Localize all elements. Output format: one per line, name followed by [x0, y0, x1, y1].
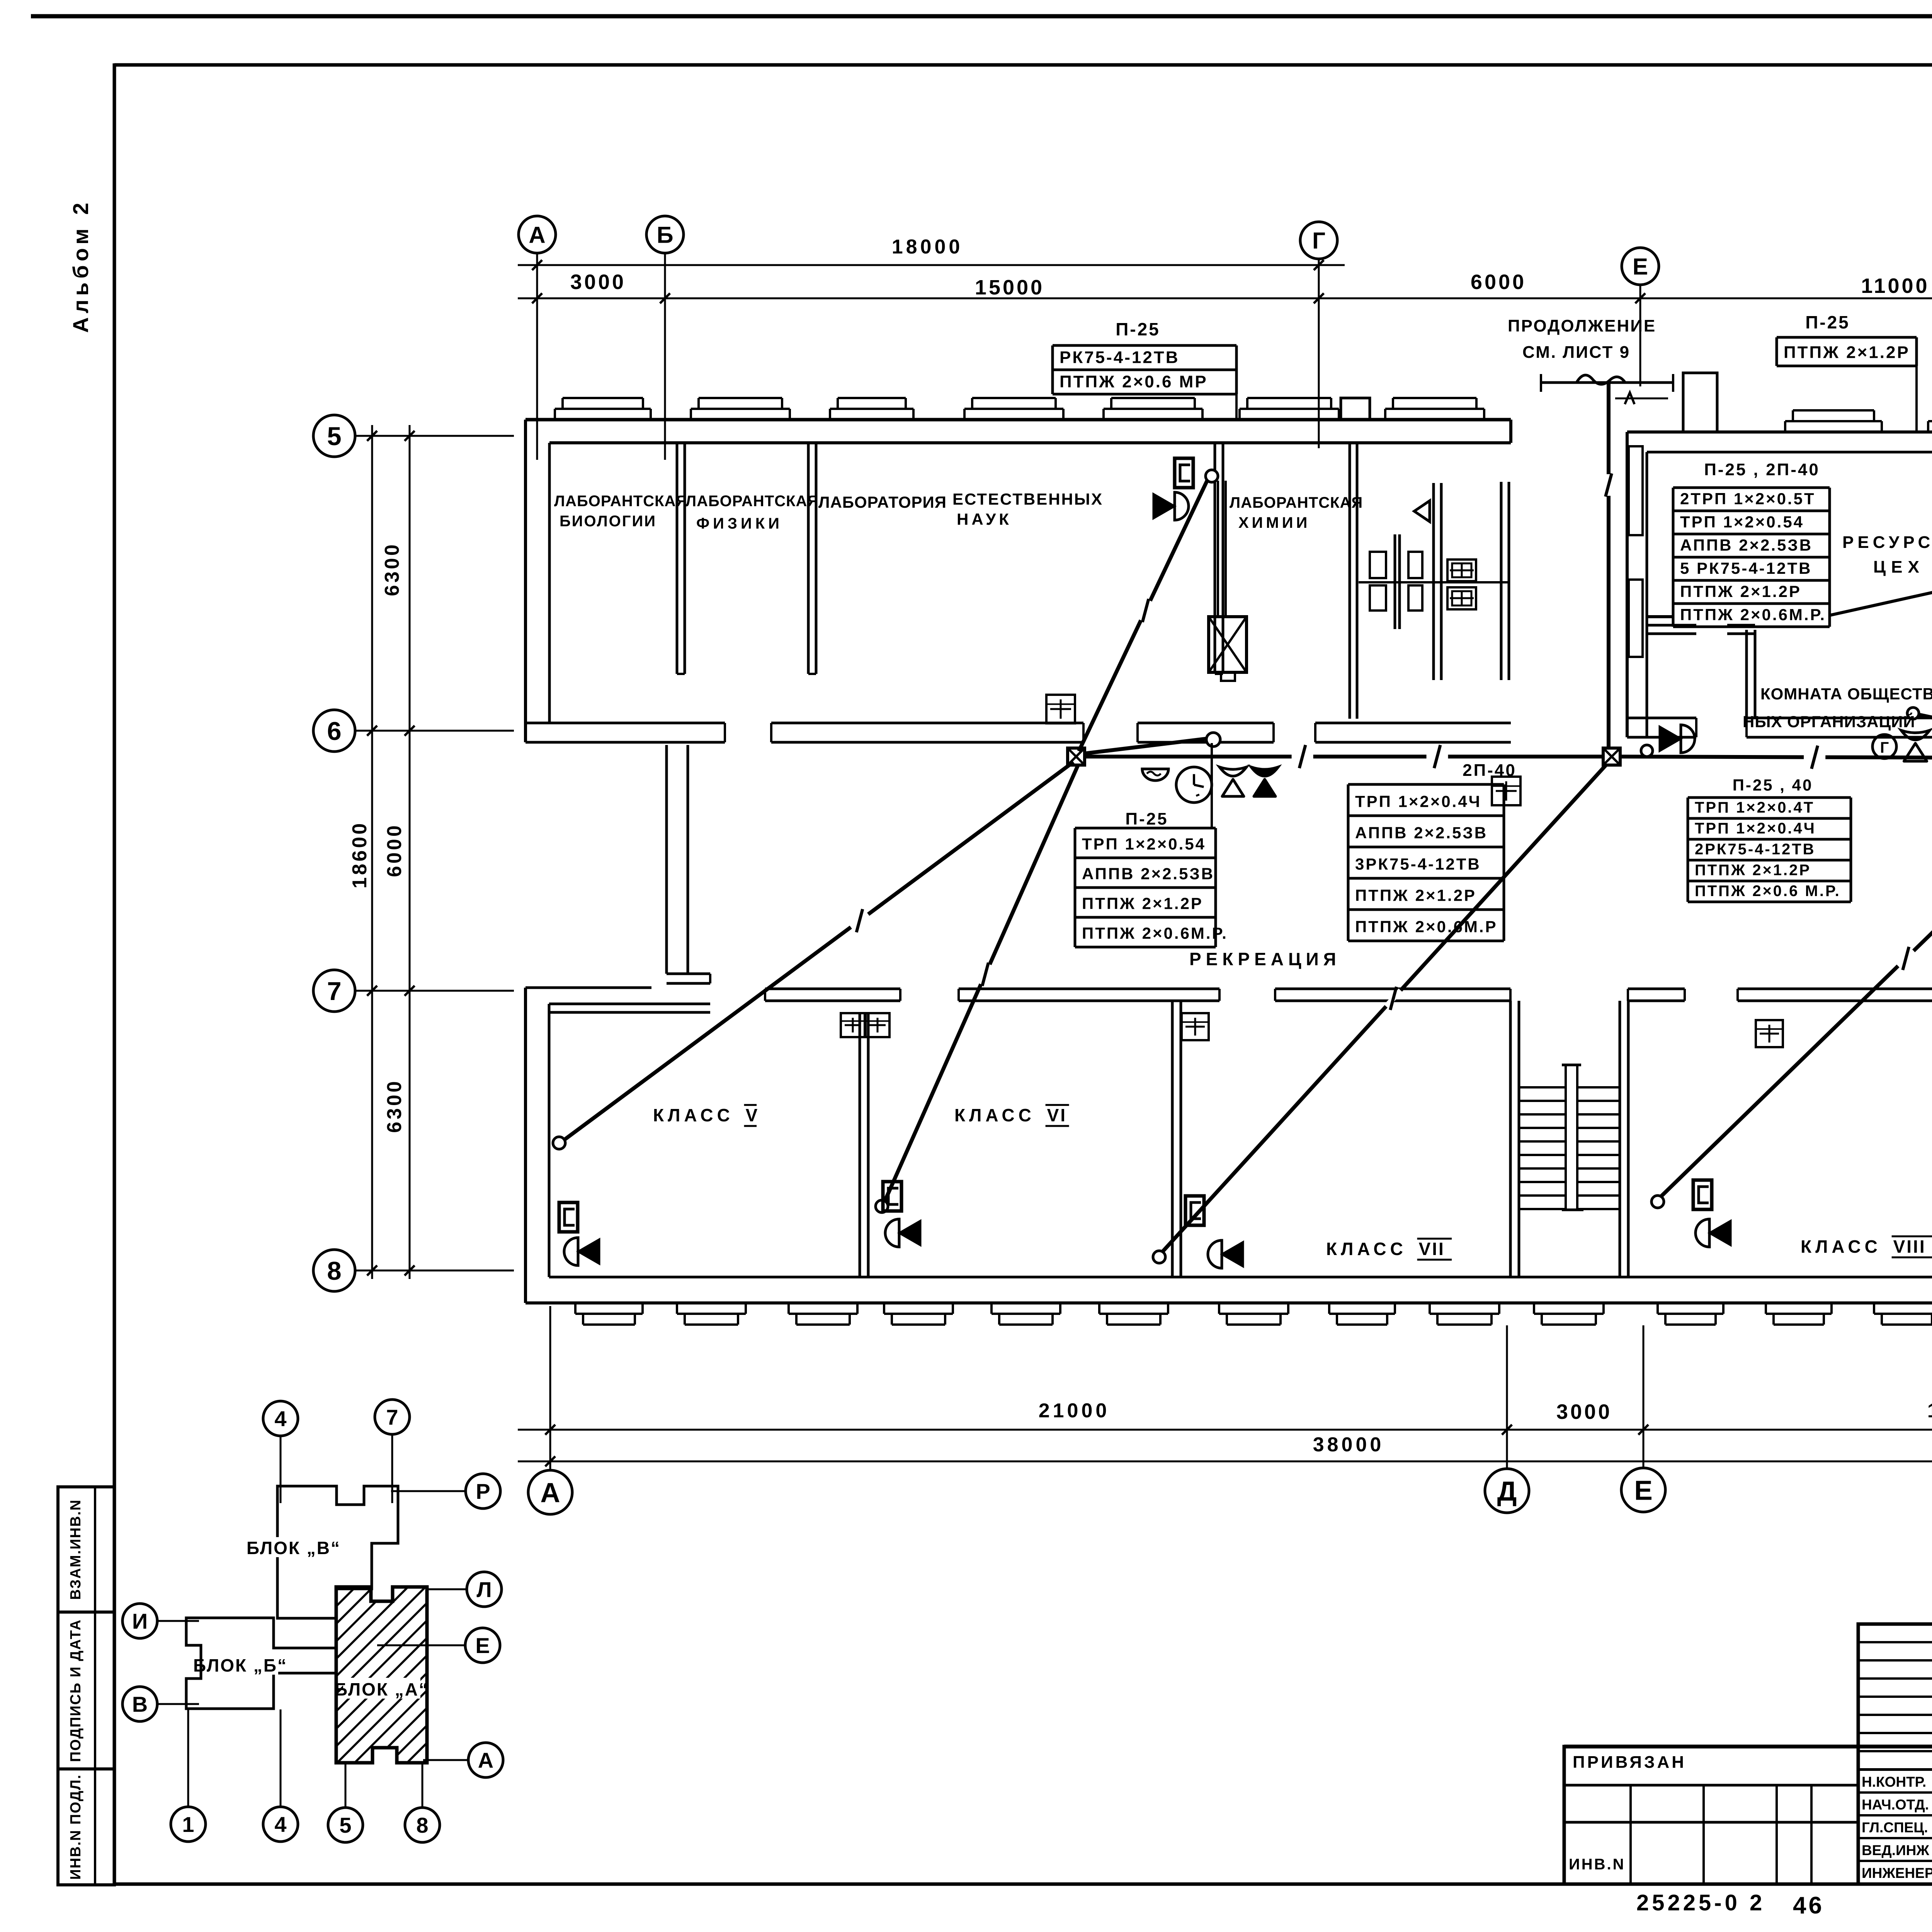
axis circle G top [1300, 222, 1337, 259]
svg-text:7: 7 [327, 977, 341, 1006]
svg-text:НАЧ.ОТД.: НАЧ.ОТД. [1862, 1797, 1929, 1813]
socket class VI [883, 1182, 901, 1211]
top dimension chain row2 [518, 298, 1932, 299]
top block outer top wall left part [526, 418, 1511, 422]
G circle komnata [1872, 735, 1896, 759]
partition V-VI [859, 1012, 861, 1277]
hourglass komnata [1901, 730, 1930, 761]
key plan block V outline [277, 1486, 398, 1618]
axis circle A bottom [528, 1470, 572, 1514]
svg-text:КЛАСС: КЛАСС [1326, 1239, 1407, 1259]
svg-text:4: 4 [274, 1406, 286, 1431]
svg-text:ГЛ.СПЕЦ.: ГЛ.СПЕЦ. [1862, 1820, 1928, 1835]
svg-text:11000: 11000 [1861, 274, 1929, 298]
svg-text:ПТПЖ 2×1.2Р: ПТПЖ 2×1.2Р [1784, 343, 1910, 362]
title block outer [1858, 1624, 1932, 1884]
clock corridor [1176, 767, 1212, 803]
svg-text:5 РК75-4-12ТВ: 5 РК75-4-12ТВ [1680, 559, 1812, 577]
svg-text:ИНЖЕНЕР: ИНЖЕНЕР [1862, 1865, 1932, 1881]
svg-text:ПТПЖ 2×1.2Р: ПТПЖ 2×1.2Р [1680, 582, 1801, 600]
top block corridor wall right segments [1627, 717, 1696, 719]
key plan axis circle I [122, 1604, 157, 1638]
svg-text:КЛАСС: КЛАСС [653, 1105, 734, 1125]
node passage [1907, 707, 1919, 719]
svg-text:VII: VII [1419, 1239, 1445, 1259]
plusbox stair [1492, 777, 1520, 805]
svg-text:ЦЕХ: ЦЕХ [1873, 558, 1925, 577]
svg-text:14000: 14000 [1927, 1400, 1932, 1422]
frame left line [113, 63, 116, 1885]
class V top wall [549, 1003, 710, 1005]
svg-text:Б: Б [656, 222, 673, 248]
svg-text:2РК75-4-12ТВ: 2РК75-4-12ТВ [1695, 841, 1816, 858]
svg-text:ИНВ.N: ИНВ.N [1569, 1856, 1626, 1873]
socket class VIII [1693, 1180, 1712, 1209]
svg-text:Г: Г [1312, 228, 1325, 254]
svg-text:П-25 , 40: П-25 , 40 [1733, 776, 1813, 794]
svg-text:Е: Е [1634, 1476, 1652, 1506]
riser corridor to table5 [1211, 743, 1213, 828]
partition VI-VII [1171, 1001, 1174, 1277]
svg-text:Г: Г [1880, 739, 1889, 756]
axis circle D bottom [1485, 1469, 1529, 1513]
signoff rows [1858, 1769, 1932, 1771]
svg-text:ТРП 1×2×0.54: ТРП 1×2×0.54 [1680, 513, 1804, 531]
windows top wall left [555, 398, 651, 420]
table T6 2P-40 corridor center [1348, 761, 1517, 941]
riser prodolzhenie [1605, 383, 1612, 748]
svg-text:3РК75-4-12ТВ: 3РК75-4-12ТВ [1355, 855, 1481, 873]
left step wall [526, 986, 651, 989]
svg-text:15000: 15000 [975, 276, 1044, 299]
svg-text:А: А [540, 1478, 560, 1509]
key plan axis circle E [465, 1628, 500, 1663]
svg-text:Е: Е [1633, 254, 1648, 280]
svg-text:ВЗАМ.ИНВ.N: ВЗАМ.ИНВ.N [68, 1499, 84, 1600]
svg-text:БЛОК „А“: БЛОК „А“ [335, 1679, 429, 1699]
svg-text:6300: 6300 [381, 542, 403, 596]
vestibule wall left [665, 745, 668, 974]
table T1 P-25 top labs [1053, 319, 1236, 394]
wire box1 to class V [564, 762, 1073, 1140]
wire box3 to passage node [1920, 715, 1932, 754]
speaker class VI [885, 1219, 920, 1247]
svg-text:БИОЛОГИИ: БИОЛОГИИ [560, 513, 656, 530]
key plan block B outline [186, 1618, 336, 1709]
svg-text:25225-0 2: 25225-0 2 [1636, 1890, 1765, 1915]
speaker class V [564, 1238, 599, 1265]
privyazan box [1564, 1747, 1858, 1884]
stairs treads [1519, 1087, 1620, 1209]
windows top wall right [1785, 410, 1882, 432]
svg-text:БЛОК „В“: БЛОК „В“ [247, 1538, 341, 1558]
left stamp box column [58, 1487, 114, 1885]
table T5 P-25 corridor left [1075, 810, 1228, 947]
labs bottom wall segments [526, 722, 725, 724]
svg-text:3000: 3000 [570, 270, 626, 294]
top block outer top wall right part [1627, 430, 1932, 434]
left axis circle 5 [313, 415, 355, 457]
svg-text:КЛАСС: КЛАСС [1801, 1236, 1881, 1257]
hourglass corridor open [1219, 767, 1247, 796]
resurs left wall windows [1629, 446, 1643, 535]
svg-text:5: 5 [339, 1813, 351, 1837]
node class VIII [1651, 1196, 1664, 1208]
key plan axis circle D [468, 1743, 503, 1777]
table T7 P-25 40 corridor right [1688, 776, 1851, 902]
socket class V [559, 1202, 578, 1232]
svg-text:АППВ 2×2.5ЗВ: АППВ 2×2.5ЗВ [1082, 864, 1214, 883]
svg-text:П-25: П-25 [1125, 810, 1168, 828]
svg-text:ХИМИИ: ХИМИИ [1238, 514, 1310, 531]
svg-text:П-25: П-25 [1116, 319, 1160, 339]
labs left outer wall [524, 420, 527, 742]
svg-text:Д: Д [1497, 1476, 1517, 1507]
key plan axis circle 4 top [263, 1401, 298, 1436]
frame top second line [114, 63, 1932, 67]
junction box 1 [1068, 748, 1085, 765]
labs partition phys-lab [807, 443, 810, 674]
sheet top border [31, 14, 1932, 19]
svg-text:6: 6 [327, 717, 341, 746]
left axis circle 8 [313, 1250, 355, 1291]
label klass VII [1326, 1239, 1452, 1260]
svg-text:ЛАБОРАНТСКАЯ: ЛАБОРАНТСКАЯ [685, 493, 819, 510]
svg-text:ФИЗИКИ: ФИЗИКИ [696, 515, 783, 532]
signoff grid [1858, 1623, 1932, 1625]
windows bottom wall [575, 1303, 643, 1325]
svg-text:А: А [478, 1748, 493, 1772]
axis circle E top [1622, 248, 1659, 285]
svg-text:18000: 18000 [892, 236, 963, 258]
labs partition chem-wc [1349, 443, 1351, 719]
svg-text:8: 8 [416, 1813, 428, 1837]
resurs tseh left wall [1626, 432, 1629, 737]
axis circle B top [646, 216, 684, 253]
labs partition nauk-chem [1214, 443, 1216, 674]
svg-text:38000: 38000 [1313, 1434, 1384, 1456]
svg-text:5: 5 [327, 422, 341, 451]
uchit room cable along wall [1830, 579, 1932, 615]
axis circle E bottom [1621, 1468, 1665, 1512]
break squiggle [1577, 375, 1625, 384]
key plan axis circle 7 top [375, 1400, 410, 1434]
classroom left outer wall [524, 988, 527, 1303]
svg-text:ТРП 1×2×0.4Ч: ТРП 1×2×0.4Ч [1355, 792, 1481, 810]
svg-text:21000: 21000 [1039, 1400, 1110, 1422]
svg-text:2ТРП 1×2×0.5Т: 2ТРП 1×2×0.5Т [1680, 490, 1816, 508]
svg-text:КОМНАТА ОБЩЕСТВЕН-: КОМНАТА ОБЩЕСТВЕН- [1760, 685, 1932, 703]
svg-text:ПТПЖ 2×1.2Р: ПТПЖ 2×1.2Р [1695, 862, 1811, 879]
svg-text:КЛАСС: КЛАСС [954, 1105, 1035, 1125]
svg-text:2П-40: 2П-40 [1463, 761, 1517, 780]
key plan axis circle 4 bottom [263, 1807, 298, 1842]
key plan axis circle R [466, 1474, 500, 1509]
key plan label blok B [193, 1655, 287, 1675]
wire box1 to corridor node [1085, 739, 1206, 753]
svg-text:6000: 6000 [1471, 270, 1526, 294]
left axis circle 7 [313, 970, 355, 1012]
key plan axis circle 1 bottom [171, 1807, 206, 1842]
frame bottom line [114, 1883, 1932, 1886]
svg-text:ПОДПИСЬ И ДАТА: ПОДПИСЬ И ДАТА [68, 1619, 84, 1762]
key plan axis circle 5 bottom [328, 1808, 363, 1842]
svg-text:РЕКРЕАЦИЯ: РЕКРЕАЦИЯ [1189, 949, 1341, 969]
wire box3 to class VIII [1660, 763, 1932, 1197]
svg-text:В: В [132, 1692, 148, 1716]
svg-text:Альбом 2: Альбом 2 [68, 199, 93, 333]
top dimension chain 18000 [518, 264, 1345, 266]
svg-text:АППВ 2×2.5ЗВ: АППВ 2×2.5ЗВ [1680, 536, 1813, 554]
svg-text:6300: 6300 [383, 1079, 406, 1133]
svg-text:ПТПЖ 2×0.6М.Р: ПТПЖ 2×0.6М.Р [1355, 917, 1498, 935]
classroom bottom outer wall [526, 1301, 1932, 1304]
svg-text:БЛОК „Б“: БЛОК „Б“ [193, 1655, 287, 1675]
svg-text:ПТПЖ 2×0.6 МР: ПТПЖ 2×0.6 МР [1060, 372, 1208, 391]
svg-text:ЛАБОРАНТСКАЯ: ЛАБОРАНТСКАЯ [554, 493, 687, 510]
komnata partition horizontal [1647, 624, 1696, 627]
svg-text:ЕСТЕСТВЕННЫХ: ЕСТЕСТВЕННЫХ [952, 490, 1103, 508]
svg-text:8: 8 [327, 1257, 341, 1286]
svg-text:ПРИВЯЗАН: ПРИВЯЗАН [1573, 1753, 1686, 1772]
svg-text:АППВ 2×2.5ЗВ: АППВ 2×2.5ЗВ [1355, 823, 1488, 842]
svg-text:VIII: VIII [1893, 1236, 1926, 1257]
partition stair-VIII [1619, 1001, 1621, 1277]
svg-text:И: И [132, 1609, 148, 1633]
svg-text:ЛАБОРАТОРИЯ: ЛАБОРАТОРИЯ [818, 493, 947, 511]
hourglass corridor filled [1251, 767, 1278, 796]
cap symbol corridor [1142, 769, 1168, 781]
speaker komnata [1660, 725, 1695, 753]
svg-text:А: А [529, 222, 545, 248]
labs partition bio-phys [676, 443, 679, 674]
svg-text:ВЕД.ИНЖ: ВЕД.ИНЖ [1862, 1842, 1929, 1858]
corridor trunk wire 1-2 [1085, 745, 1603, 768]
speaker class VIII [1696, 1219, 1730, 1247]
svg-text:РЕСУРСНЫЙ: РЕСУРСНЫЙ [1842, 532, 1932, 552]
svg-text:Л: Л [476, 1577, 492, 1602]
svg-text:ТРП 1×2×0.4Т: ТРП 1×2×0.4Т [1695, 799, 1815, 816]
svg-text:ПТПЖ 2×1.2Р: ПТПЖ 2×1.2Р [1082, 894, 1203, 912]
table T2 P-25 top center [1777, 312, 1917, 366]
key plan label blok A [335, 1678, 429, 1699]
key plan axis circle 8 bottom [405, 1808, 440, 1842]
plusbox class VII [1182, 1013, 1209, 1040]
partition VII-stair [1509, 1001, 1512, 1277]
corridor lower wall segments [765, 988, 900, 990]
stairs stringer [1565, 1065, 1567, 1209]
axis circle A top [519, 216, 556, 253]
label klass V [653, 1105, 759, 1126]
socket class VII [1185, 1196, 1204, 1225]
svg-text:ИНВ.N ПОДЛ.: ИНВ.N ПОДЛ. [68, 1774, 84, 1879]
chimney protrusion on top wall [1341, 398, 1370, 420]
svg-text:ТРП 1×2×0.54: ТРП 1×2×0.54 [1082, 835, 1206, 853]
double socket V-VI partition [841, 1013, 865, 1037]
wc fixtures [1370, 552, 1386, 578]
node chem [1206, 470, 1218, 482]
left axis circle 6 [313, 710, 355, 752]
speaker nauk triangle [1414, 501, 1430, 522]
bottom dimension chain 38000 [518, 1461, 1932, 1463]
wire box2 to class VII [1162, 764, 1607, 1252]
node resurs [1641, 745, 1653, 757]
protrusion near prodolzhenie [1683, 373, 1717, 432]
socket chem [1175, 458, 1193, 488]
plusbox class VIII [1756, 1020, 1783, 1047]
svg-text:П-25 , 2П-40: П-25 , 2П-40 [1704, 460, 1820, 479]
stadiya list listov header [1564, 1745, 1932, 1748]
svg-text:ПТПЖ 2×0.6М.Р.: ПТПЖ 2×0.6М.Р. [1680, 605, 1826, 624]
svg-text:4: 4 [274, 1812, 286, 1837]
komnata partition vertical [1745, 630, 1748, 718]
key plan axis circle V [122, 1687, 157, 1721]
wire box1 to class VI [885, 765, 1078, 1201]
node class VII [1153, 1251, 1165, 1263]
svg-text:ТРП 1×2×0.4Ч: ТРП 1×2×0.4Ч [1695, 820, 1816, 837]
svg-text:ПТПЖ 2×1.2Р: ПТПЖ 2×1.2Р [1355, 886, 1476, 904]
node class V [553, 1137, 565, 1149]
svg-text:7: 7 [386, 1405, 398, 1429]
key plan axis circle L [467, 1572, 502, 1607]
vent unit chem [1209, 617, 1247, 681]
svg-text:НЫХ ОРГАНИЗАЦИЙ: НЫХ ОРГАНИЗАЦИЙ [1743, 712, 1915, 731]
svg-text:3000: 3000 [1556, 1400, 1612, 1423]
svg-text:1: 1 [182, 1812, 194, 1837]
svg-text:VI: VI [1047, 1105, 1067, 1125]
svg-text:ПТПЖ 2×0.6 М.Р.: ПТПЖ 2×0.6 М.Р. [1695, 883, 1841, 900]
svg-text:ЛАБОРАНТСКАЯ: ЛАБОРАНТСКАЯ [1230, 494, 1363, 511]
svg-text:18600: 18600 [349, 821, 371, 889]
svg-text:ПТПЖ 2×0.6М.Р.: ПТПЖ 2×0.6М.Р. [1082, 924, 1228, 942]
svg-text:Е: Е [475, 1633, 490, 1658]
svg-text:46: 46 [1793, 1892, 1824, 1919]
plusbox labs wall [1046, 695, 1075, 723]
svg-text:V: V [746, 1105, 759, 1125]
junction box 2 [1603, 748, 1620, 765]
left dimension chain lines [371, 425, 373, 1279]
wire box1 to chem node [1079, 481, 1207, 751]
node corridor wall [1206, 733, 1220, 747]
svg-text:РК75-4-12ТВ: РК75-4-12ТВ [1060, 348, 1180, 367]
small arrow to wall [1615, 398, 1668, 400]
key plan label blok V [247, 1537, 341, 1558]
table T4 resurs tseh [1673, 460, 1830, 627]
svg-text:Н.КОНТР.: Н.КОНТР. [1862, 1774, 1926, 1790]
speaker class VII [1208, 1240, 1243, 1268]
bottom dimension chain 21000 3000 14000 [518, 1429, 1932, 1431]
wc block walls [1509, 420, 1512, 443]
svg-text:ПРОДОЛЖЕНИЕ: ПРОДОЛЖЕНИЕ [1508, 316, 1656, 335]
label klass VI [954, 1105, 1069, 1126]
svg-text:СМ. ЛИСТ 9: СМ. ЛИСТ 9 [1522, 343, 1630, 362]
svg-text:НАУК: НАУК [957, 510, 1012, 528]
corridor trunk wire 2-3 [1620, 746, 1932, 769]
chem riser to vent [1217, 481, 1219, 617]
svg-text:6000: 6000 [383, 823, 406, 877]
speaker chem [1154, 492, 1189, 520]
svg-text:П-25: П-25 [1805, 312, 1850, 332]
svg-text:Р: Р [476, 1479, 490, 1503]
label klass VIII [1801, 1236, 1932, 1257]
node class VI [876, 1200, 888, 1213]
